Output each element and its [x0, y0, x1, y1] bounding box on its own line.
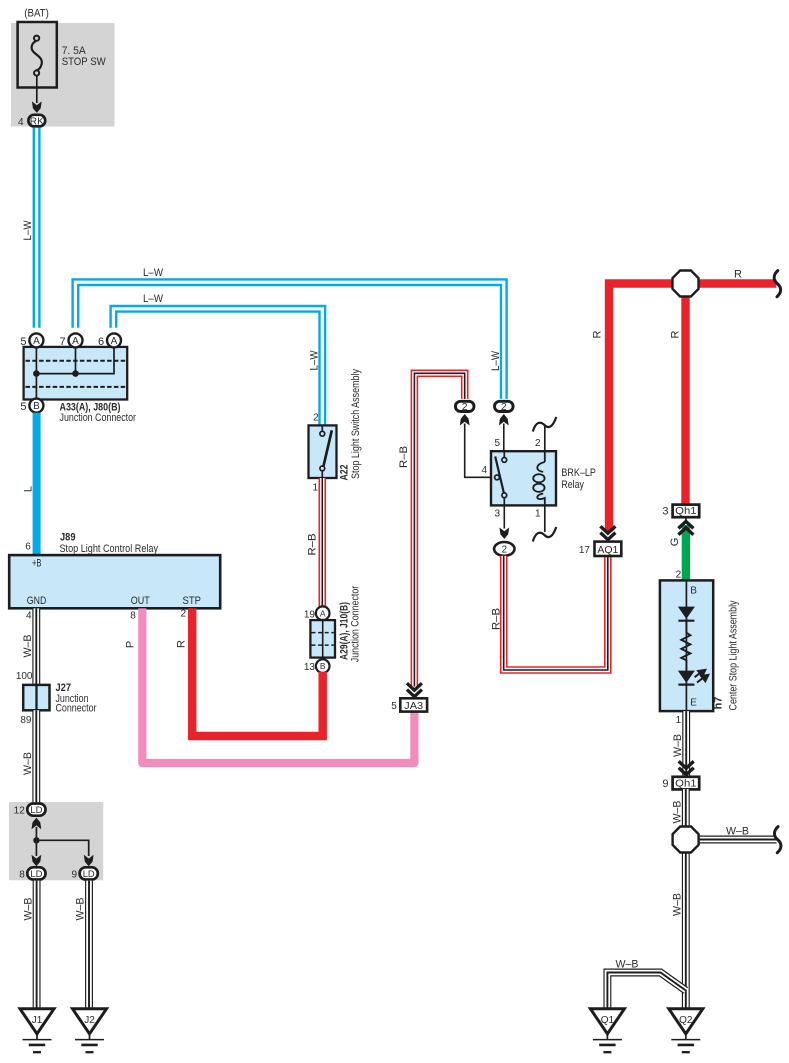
junction dot	[72, 370, 79, 377]
svg-text:R–B: R–B	[306, 534, 318, 556]
svg-text:2: 2	[501, 401, 507, 413]
svg-text:8: 8	[130, 611, 136, 622]
A33 internal wires	[35, 347, 37, 400]
svg-text:W–B: W–B	[22, 635, 34, 658]
arrow up into oval 2 right	[499, 414, 509, 426]
svg-text:R–B: R–B	[491, 608, 503, 630]
svg-text:W–B: W–B	[726, 825, 749, 837]
wire L-W A33 pin7A to BRK-LP relay oval	[75, 282, 503, 399]
svg-text:2: 2	[313, 413, 319, 424]
connector 8 LD	[27, 867, 45, 879]
svg-text:R: R	[592, 330, 604, 338]
double chevron up into Qh1	[678, 521, 693, 534]
junction connector A29(A) J10(B)	[310, 620, 335, 658]
arrow up into oval 2 left	[460, 414, 470, 426]
svg-text:W–B: W–B	[616, 958, 639, 970]
svg-text:W–B: W–B	[22, 898, 34, 921]
wire P J89 OUT to JA3 (pink)	[142, 608, 414, 763]
svg-text:h7: h7	[713, 697, 725, 710]
svg-text:W–B: W–B	[672, 893, 684, 916]
svg-text:1: 1	[535, 509, 541, 520]
relay switch	[495, 451, 504, 505]
svg-text:L–W: L–W	[143, 267, 164, 279]
wire W-B LD8 to J1	[33, 881, 41, 1009]
LED 2 light arrows	[695, 670, 709, 683]
double chevron into Qh1 (9)	[679, 761, 694, 774]
svg-text:3: 3	[494, 509, 500, 520]
svg-text:G: G	[669, 538, 681, 547]
svg-text:J1: J1	[32, 1015, 43, 1026]
resistor	[681, 622, 690, 671]
pin 5 A	[29, 333, 43, 347]
ground J2	[73, 1009, 107, 1052]
svg-text:9: 9	[72, 869, 78, 880]
svg-text:2: 2	[502, 545, 508, 556]
svg-text:Connector: Connector	[56, 702, 97, 714]
relay pin 1 wire + break	[544, 505, 546, 532]
wire W-B octagon down to Q2	[682, 852, 690, 1009]
relay BRK-LP box	[491, 451, 556, 505]
connector 3 Qh1	[673, 505, 700, 518]
svg-text:L–W: L–W	[308, 350, 320, 371]
svg-text:Qh1: Qh1	[675, 779, 697, 790]
svg-text:A22: A22	[338, 465, 350, 481]
svg-text:W–B: W–B	[672, 734, 684, 757]
wire R-B oval2(left) to JA3	[414, 373, 464, 686]
svg-text:L: L	[23, 486, 35, 492]
pin 7 A	[69, 333, 83, 347]
double chevron into JA3	[407, 683, 422, 696]
stop light switch A22 box	[309, 425, 337, 478]
junction connector A33(A) J80(B) box	[24, 347, 128, 400]
svg-text:6: 6	[98, 336, 104, 348]
svg-text:5: 5	[391, 701, 397, 712]
center stop light assembly h7 box	[660, 580, 713, 711]
wire L-W A33 pin6A to A22	[113, 309, 322, 426]
continuation symbol (W-B)	[774, 827, 781, 853]
pin 13 B	[316, 659, 330, 673]
arrow into RK	[32, 101, 42, 113]
pin 6 A	[107, 333, 121, 347]
wire R octagon to right continuation	[698, 279, 776, 287]
svg-text:L–W: L–W	[22, 220, 34, 241]
svg-text:Relay: Relay	[561, 479, 584, 491]
connector 17 AQ1	[595, 542, 622, 556]
svg-text:9: 9	[662, 778, 668, 790]
svg-text:OUT: OUT	[131, 595, 150, 607]
svg-text:Q2: Q2	[679, 1015, 693, 1026]
svg-text:B: B	[690, 586, 697, 597]
svg-text:RK: RK	[30, 117, 44, 128]
LED 2	[678, 671, 695, 683]
svg-text:5: 5	[20, 336, 26, 348]
svg-text:8: 8	[19, 869, 25, 880]
svg-text:19: 19	[304, 610, 316, 621]
svg-text:Stop Light Control Relay: Stop Light Control Relay	[60, 543, 159, 555]
svg-text:JA3: JA3	[404, 701, 423, 712]
wire W-B branch to Q1	[607, 973, 685, 1009]
double chevron into AQ1	[600, 526, 615, 539]
svg-text:R: R	[734, 269, 742, 281]
svg-text:2: 2	[180, 609, 186, 620]
svg-text:7: 7	[59, 336, 65, 348]
relay J89 box	[9, 555, 220, 608]
svg-text:5: 5	[494, 438, 500, 449]
connector 4 RK	[28, 115, 45, 127]
wire R-B oval2 to AQ1 (U shape)	[504, 556, 608, 670]
svg-text:A: A	[72, 336, 79, 347]
connector 12 LD	[27, 804, 45, 816]
svg-text:4: 4	[18, 117, 24, 128]
junction connector J27	[23, 685, 49, 710]
svg-text:17: 17	[579, 545, 591, 556]
svg-text:R: R	[176, 640, 188, 648]
svg-text:STP: STP	[183, 595, 202, 607]
svg-text:BRK–LP: BRK–LP	[561, 467, 596, 479]
svg-text:3: 3	[662, 506, 668, 518]
arrow down into oval 2 (pin 3)	[499, 528, 509, 540]
wire LD12 to junction dot	[35, 827, 37, 841]
svg-text:2: 2	[462, 401, 468, 413]
svg-text:Junction Connector: Junction Connector	[350, 585, 362, 662]
svg-text:Qh1: Qh1	[675, 506, 697, 517]
connector 5 JA3	[400, 698, 427, 711]
LED 1	[678, 607, 695, 619]
wire dot to LD9	[36, 840, 88, 856]
svg-text:2: 2	[535, 438, 541, 449]
svg-text:1: 1	[312, 483, 318, 494]
A33 dashed rows	[26, 360, 127, 362]
svg-text:W–B: W–B	[22, 752, 34, 775]
svg-text:W–B: W–B	[672, 801, 684, 824]
svg-text:A: A	[33, 336, 40, 347]
svg-text:Q1: Q1	[601, 1015, 615, 1026]
octagon splice (red trunk)	[673, 271, 699, 297]
arrow up into LD12	[32, 818, 42, 830]
wire oval2 left to relay pin 4	[465, 424, 495, 478]
svg-text:GND: GND	[27, 595, 47, 607]
svg-text:AQ1: AQ1	[597, 545, 618, 556]
fuse block shade (gray)	[11, 23, 115, 127]
arrow down into LD8	[32, 855, 42, 867]
svg-text:J2: J2	[84, 1015, 95, 1026]
svg-text:12: 12	[14, 806, 26, 817]
svg-text:Junction Connector: Junction Connector	[60, 412, 137, 424]
fuse 7.5A STOP SW	[18, 22, 57, 88]
relay coil	[533, 451, 545, 505]
wire fuse to RK	[36, 76, 38, 103]
wire R-B A22 pin1 to A29 pinA	[318, 478, 326, 607]
svg-text:13: 13	[304, 662, 316, 673]
svg-text:+B: +B	[32, 558, 42, 570]
connector oval 2 (below pin 3)	[494, 542, 514, 556]
svg-text:B: B	[33, 401, 40, 412]
svg-text:E: E	[690, 697, 697, 708]
h7 internal wire	[685, 580, 687, 711]
wire L-W fuse to A33 pin 5A	[33, 128, 41, 328]
connector oval 2 (left, to relay pin 4)	[455, 401, 474, 411]
wire W-B J89 GND to J27	[32, 608, 40, 685]
wire oval2 right to relay pin 5	[503, 424, 505, 452]
pin 19 A	[316, 606, 330, 620]
wire L A33 pin5B to J89	[33, 413, 41, 555]
svg-text:Stop Light Switch Assembly: Stop Light Switch Assembly	[350, 369, 362, 479]
LD block shade (gray)	[9, 802, 103, 880]
svg-text:STOP SW: STOP SW	[62, 56, 107, 68]
svg-text:(BAT): (BAT)	[24, 8, 49, 20]
continuation symbol (red)	[774, 271, 781, 297]
wire G Qh1 to h7 (green)	[685, 517, 687, 524]
svg-text:W–B: W–B	[75, 898, 87, 921]
svg-text:P: P	[125, 641, 137, 648]
svg-text:J89: J89	[60, 531, 76, 543]
wire R J89 STP to A29 pinB (red)	[192, 608, 323, 736]
junction dot	[33, 370, 40, 377]
svg-text:LD: LD	[83, 869, 95, 880]
svg-text:L–W: L–W	[143, 293, 164, 305]
wire W-B octagon right continuation	[699, 836, 777, 844]
connector 9 Qh1	[673, 777, 700, 790]
wire R octagon to AQ1	[609, 284, 673, 532]
svg-text:100: 100	[16, 671, 33, 682]
octagon splice (W-B)	[673, 827, 699, 853]
junction dot	[33, 837, 39, 843]
wire W-B h7 to Qh1	[682, 711, 690, 777]
svg-text:2: 2	[676, 570, 682, 581]
svg-text:LD: LD	[30, 869, 42, 880]
ground J1	[20, 1009, 54, 1052]
connector 9 LD	[80, 867, 98, 879]
svg-text:A: A	[320, 609, 326, 619]
ground Q2	[669, 1009, 703, 1052]
svg-text:6: 6	[25, 542, 31, 553]
svg-text:L–W: L–W	[490, 350, 502, 371]
svg-text:4: 4	[481, 465, 487, 476]
wire W-B LD9 to J2	[85, 881, 93, 1009]
ground Q1	[590, 1009, 624, 1052]
connector oval 2 (right, to relay pin 5)	[495, 401, 514, 411]
arrow down into LD9	[84, 855, 94, 867]
svg-text:4: 4	[26, 611, 32, 622]
svg-text:LD: LD	[30, 805, 42, 816]
wire W-B Qh1 to octagon	[682, 789, 690, 827]
svg-text:1: 1	[676, 715, 682, 726]
wire dot to LD8	[35, 840, 37, 856]
svg-text:89: 89	[20, 715, 32, 726]
relay pin 2 wire + break	[544, 425, 546, 452]
svg-text:R: R	[670, 330, 682, 338]
svg-text:B: B	[320, 661, 326, 671]
wire R octagon down to Qh1	[681, 296, 689, 505]
wire W-B J27 to LD12	[32, 710, 40, 802]
wire relay pin3 to oval 2	[503, 505, 505, 528]
svg-text:Center Stop Light Assembly: Center Stop Light Assembly	[728, 600, 740, 710]
A22 switch symbol	[322, 425, 332, 478]
svg-text:5: 5	[20, 401, 26, 413]
svg-text:A: A	[111, 336, 118, 347]
pin 5 B	[29, 399, 43, 413]
svg-text:R–B: R–B	[398, 446, 410, 468]
